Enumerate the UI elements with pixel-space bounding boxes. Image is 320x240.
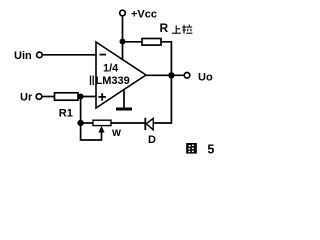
wire Vcc vertical <box>122 16 124 42</box>
op-amp U1 1/4 LM339 <box>91 42 147 108</box>
wire junction vertical <box>80 97 82 124</box>
potentiometer W <box>93 120 111 125</box>
svg-text:Uo: Uo <box>198 72 213 84</box>
node output junction <box>168 72 174 78</box>
terminal +Vcc <box>120 10 126 16</box>
svg-text:R1: R1 <box>59 107 73 119</box>
svg-text:5: 5 <box>207 143 214 157</box>
terminal Ur <box>36 94 42 100</box>
wire output down to diode <box>153 75 171 123</box>
wire Vcc to R <box>123 41 143 43</box>
svg-text:D: D <box>148 134 156 146</box>
wire Uin to inverting input <box>42 54 96 56</box>
terminal Uo <box>184 73 190 79</box>
wiper arrow <box>98 126 104 133</box>
wire wiper loop <box>81 123 102 140</box>
wire Ur to R1 <box>42 96 55 98</box>
wire output <box>145 74 184 76</box>
wire R to right corner <box>161 42 171 76</box>
ground <box>116 89 132 111</box>
wire diode to W <box>111 122 145 124</box>
resistor R1 <box>55 93 79 100</box>
wire R1 to non-inverting input <box>78 96 96 98</box>
node lower junction <box>77 120 83 126</box>
svg-text:LM339: LM339 <box>96 75 130 87</box>
wire V+ pin stem <box>122 42 124 61</box>
wire W to lower node <box>81 122 93 124</box>
label 图 5 <box>186 143 197 154</box>
svg-text:Uin: Uin <box>14 50 32 62</box>
diode D <box>145 118 153 130</box>
node Vcc junction <box>120 39 126 45</box>
node after R1 <box>78 94 84 100</box>
svg-text:1/4: 1/4 <box>103 63 119 75</box>
svg-text:Ur: Ur <box>20 92 33 104</box>
svg-text:+Vcc: +Vcc <box>131 9 157 21</box>
svg-text:W: W <box>112 128 121 139</box>
svg-text:R: R <box>160 21 169 35</box>
terminal Uin <box>37 52 43 58</box>
resistor R <box>142 39 161 46</box>
